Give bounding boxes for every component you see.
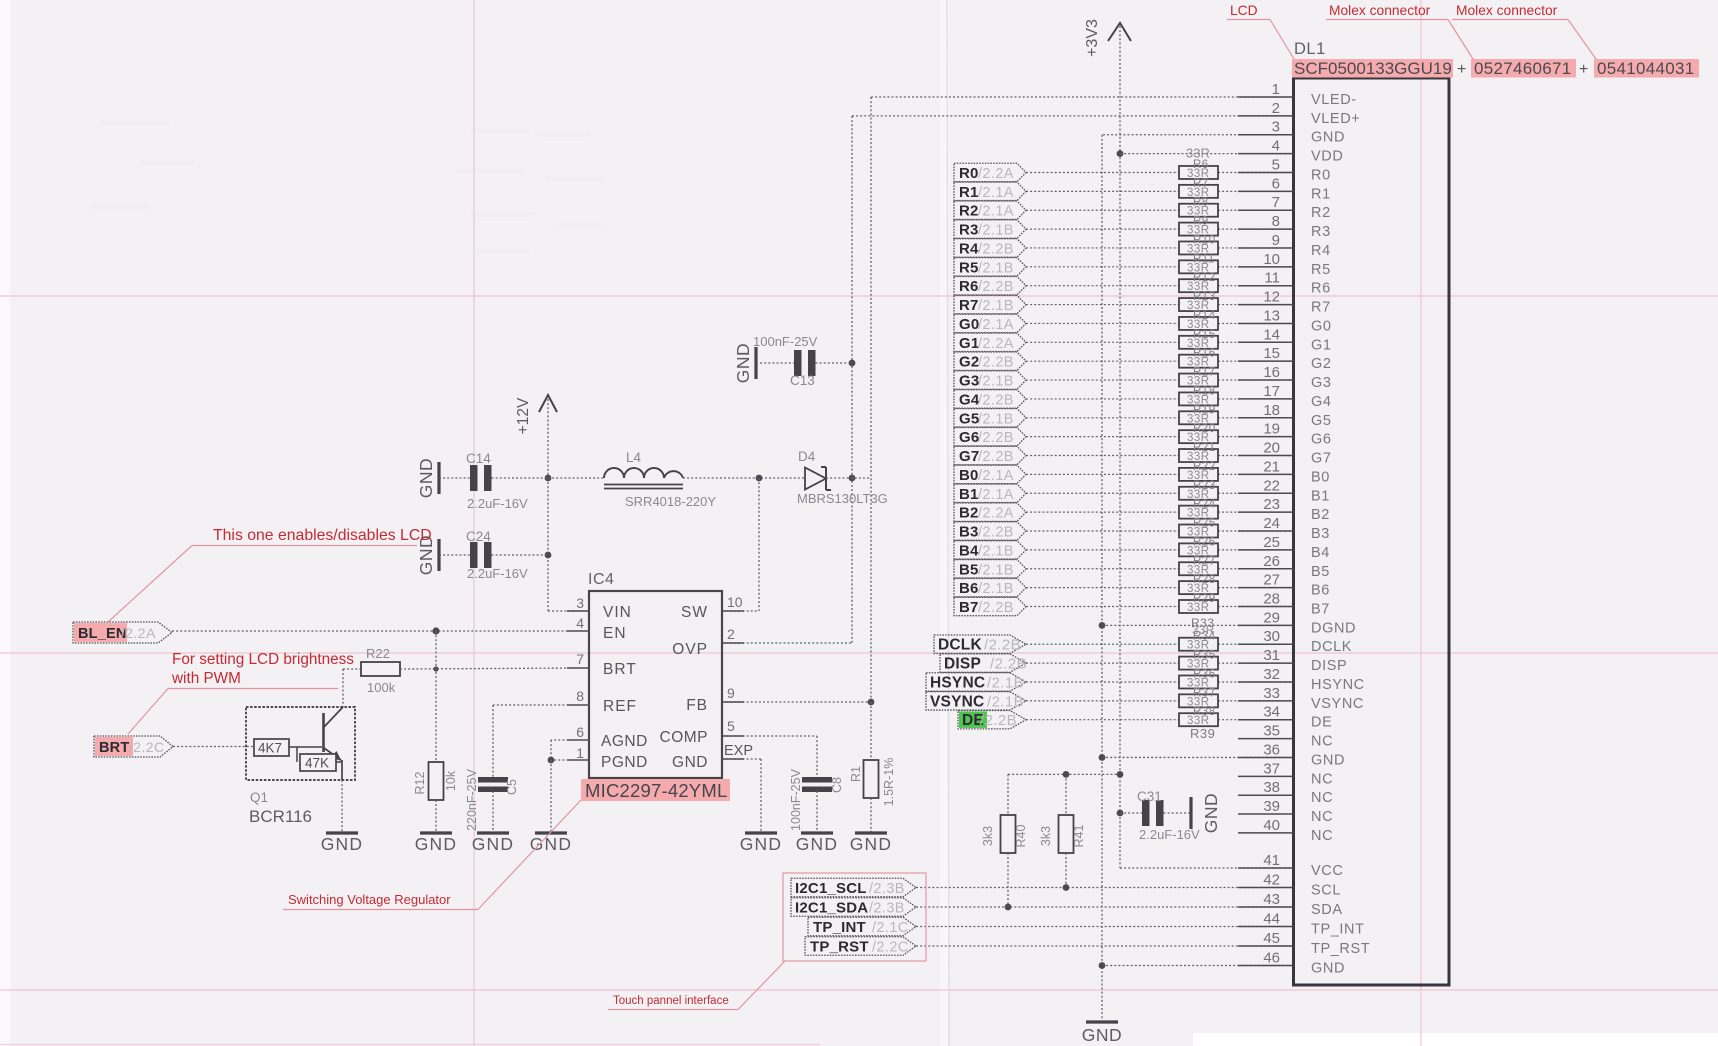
resistor R35 33R: [1179, 657, 1218, 670]
svg-text:5: 5: [1272, 156, 1280, 173]
resistor R7 33R: [1179, 185, 1218, 198]
pin 19 G6: [1238, 436, 1294, 438]
svg-text:DCLK: DCLK: [1311, 639, 1352, 655]
resistor R37 33R: [1179, 694, 1218, 707]
svg-text:FB: FB: [686, 697, 708, 714]
pin 6 R1: [1238, 190, 1294, 192]
wire FB pin: [722, 701, 871, 703]
resistor R16 33R: [1179, 355, 1218, 368]
svg-text:G3: G3: [959, 373, 979, 390]
resistor R6 33R: [1179, 166, 1218, 179]
wire G0 row: [1026, 322, 1179, 324]
svg-text:R5: R5: [959, 259, 979, 276]
svg-text:/2.1B: /2.1B: [978, 562, 1014, 578]
svg-text:100nF-25V: 100nF-25V: [753, 334, 818, 349]
capacitor C13 100nF-25V: [756, 362, 794, 364]
pin 16 G3: [1238, 379, 1294, 381]
svg-text:R15: R15: [1193, 329, 1216, 341]
svg-text:C24: C24: [466, 529, 491, 544]
svg-text:SRR4018-220Y: SRR4018-220Y: [625, 494, 716, 509]
svg-text:B3: B3: [1311, 526, 1330, 542]
svg-text:/2.3B: /2.3B: [869, 881, 905, 897]
wire G6 row: [1026, 436, 1179, 438]
svg-text:Q1: Q1: [250, 790, 268, 805]
svg-text:SCL: SCL: [1311, 883, 1341, 899]
svg-text:/2.2C: /2.2C: [129, 739, 164, 755]
node FB junction: [868, 699, 875, 706]
svg-text:R12: R12: [413, 771, 427, 794]
wire B4 row: [1026, 549, 1179, 551]
resistor R13 33R: [1179, 298, 1218, 311]
pin 42 SCL: [1238, 887, 1294, 889]
svg-text:Molex connector: Molex connector: [1329, 3, 1431, 18]
resistor R9 33R: [1179, 223, 1218, 236]
svg-text:/2.2B: /2.2B: [990, 656, 1027, 673]
node VDD junction: [1117, 150, 1124, 157]
ground for C24: [437, 539, 440, 571]
svg-text:/2.2B: /2.2B: [978, 241, 1014, 257]
svg-text:G5: G5: [959, 410, 979, 427]
svg-text:GND: GND: [415, 834, 458, 854]
node D4 output junction: [849, 475, 856, 482]
svg-text:220nF-25V: 220nF-25V: [465, 768, 479, 831]
svg-text:GND: GND: [472, 834, 515, 854]
wire B0 row: [1026, 473, 1179, 475]
wire pullup rail to +3V3: [1008, 773, 1120, 775]
svg-text:IC4: IC4: [588, 571, 614, 588]
svg-text:10k: 10k: [444, 770, 458, 791]
node C31 junction: [1117, 810, 1124, 817]
svg-text:9: 9: [1272, 232, 1280, 249]
resistor R12 10k pulldown: [435, 631, 437, 762]
svg-text:VSYNC: VSYNC: [1311, 696, 1364, 712]
power +3V3: [1108, 23, 1131, 41]
svg-text:R20: R20: [1193, 423, 1216, 435]
node PGND junction: [548, 757, 555, 764]
wire G5 row: [1026, 417, 1179, 419]
wire R4 row: [1026, 247, 1179, 249]
svg-text:LCD: LCD: [1230, 3, 1258, 18]
ground for C31: [1189, 797, 1192, 829]
pin 15 G2: [1238, 360, 1294, 362]
net flag VSYNC: [926, 692, 1026, 710]
svg-text:B6: B6: [959, 580, 979, 597]
svg-text:19: 19: [1263, 421, 1280, 438]
net flag B3: [954, 522, 1026, 540]
wire G1 row: [1026, 341, 1179, 343]
wire VSYNC row: [1026, 700, 1179, 702]
net flag R7: [954, 295, 1026, 313]
svg-text:B0: B0: [1311, 469, 1330, 485]
wire R3 row: [1026, 228, 1179, 230]
wire DGND pin 29: [1102, 624, 1294, 626]
connector DL1 box: [1294, 78, 1450, 985]
capacitor C14 2.2uF-16V: [439, 477, 471, 479]
pin 31 DISP: [1238, 662, 1294, 664]
svg-text:B2: B2: [1311, 507, 1330, 523]
pin 3 GND: [1238, 134, 1294, 136]
ground for C5: [477, 831, 509, 834]
svg-text:32: 32: [1263, 666, 1280, 683]
grid lines: [0, 295, 1718, 297]
svg-text:100nF-25V: 100nF-25V: [789, 768, 803, 831]
svg-text:Molex connector: Molex connector: [1456, 3, 1558, 18]
svg-text:Touch pannel interface: Touch pannel interface: [613, 995, 729, 1007]
svg-text:30: 30: [1263, 628, 1280, 645]
node SDA/R40 junction: [1005, 904, 1012, 911]
pin 1 VLED-: [1238, 96, 1294, 98]
svg-text:B0: B0: [959, 467, 979, 484]
ground for C14: [437, 462, 440, 494]
net flag B6: [954, 578, 1026, 596]
wire AGND/PGND to ground: [551, 739, 589, 741]
svg-text:GND: GND: [733, 343, 753, 383]
resistor R22 100k: [343, 668, 361, 670]
svg-text:G0: G0: [1311, 318, 1332, 334]
resistor R27 33R: [1179, 562, 1218, 575]
pin 11 R6: [1238, 285, 1294, 287]
svg-text:G6: G6: [959, 429, 979, 446]
ground for EXP: [745, 831, 777, 834]
svg-text:Switching Voltage Regulator: Switching Voltage Regulator: [288, 892, 451, 907]
svg-text:R18: R18: [1193, 385, 1216, 397]
net flag B0: [954, 465, 1026, 483]
svg-text:TP_INT: TP_INT: [1311, 922, 1365, 938]
wire B5 row: [1026, 568, 1179, 570]
svg-text:1: 1: [576, 745, 584, 761]
svg-text:BRT: BRT: [603, 661, 637, 678]
svg-text:/2.3B: /2.3B: [869, 901, 905, 917]
svg-text:GND: GND: [1201, 793, 1221, 833]
svg-text:R28: R28: [1193, 574, 1216, 586]
pin 33 VSYNC: [1238, 700, 1294, 702]
svg-text:GND: GND: [1311, 752, 1345, 768]
svg-text:COMP: COMP: [660, 729, 709, 746]
resistor R17 33R: [1179, 374, 1218, 387]
svg-text:2.2uF-16V: 2.2uF-16V: [1139, 827, 1200, 842]
pin 46 GND: [1238, 965, 1294, 967]
net flag I2C1_SDA: [791, 898, 916, 917]
svg-text:29: 29: [1263, 609, 1280, 626]
svg-text:/2.1B: /2.1B: [978, 223, 1014, 239]
svg-text:17: 17: [1263, 383, 1280, 400]
pin 12 R7: [1238, 304, 1294, 306]
net flag G1: [954, 333, 1026, 351]
net flag R3: [954, 220, 1026, 238]
wire +12V rail to VIN: [547, 478, 549, 611]
pin 14 G1: [1238, 341, 1294, 343]
pin 10 R5: [1238, 266, 1294, 268]
svg-text:/2.1B: /2.1B: [978, 411, 1014, 427]
net flag B4: [954, 541, 1026, 559]
svg-text:6: 6: [576, 724, 584, 740]
svg-text:2.2uF-16V: 2.2uF-16V: [467, 496, 528, 511]
wire D4 cathode to VLED+ node: [826, 477, 871, 479]
pin 13 G0: [1238, 322, 1294, 324]
svg-text:46: 46: [1263, 950, 1280, 967]
svg-text:DE: DE: [1311, 715, 1332, 731]
svg-text:10: 10: [1263, 251, 1280, 268]
power +12V: [539, 395, 557, 412]
svg-text:R4: R4: [959, 240, 979, 257]
svg-text:R3: R3: [959, 222, 979, 239]
capacitor C8 100nF-25V: [802, 777, 832, 783]
pin 45 TP_RST: [1238, 945, 1294, 947]
svg-text:/2.1B: /2.1B: [978, 260, 1014, 276]
svg-text:GND: GND: [416, 458, 436, 498]
svg-text:MIC2297-42YML: MIC2297-42YML: [585, 780, 727, 801]
svg-text:EXP: EXP: [724, 743, 753, 759]
resistor R15 33R: [1179, 336, 1218, 349]
svg-text:34: 34: [1263, 704, 1280, 721]
svg-text:16: 16: [1263, 364, 1280, 381]
net flag G2: [954, 352, 1026, 370]
node R41 top junction: [1063, 771, 1070, 778]
svg-text:G5: G5: [1311, 413, 1332, 429]
wire OVP to VLED+ rail: [722, 642, 852, 644]
pin 21 B0: [1238, 473, 1294, 475]
node DGND junction: [1099, 622, 1106, 629]
wire R6 row: [1026, 285, 1179, 287]
svg-text:40: 40: [1263, 817, 1280, 834]
svg-text:0541044031: 0541044031: [1597, 59, 1695, 78]
svg-text:/2.1A: /2.1A: [978, 468, 1014, 484]
svg-text:20: 20: [1263, 440, 1280, 457]
svg-text:SDA: SDA: [1311, 902, 1343, 918]
svg-text:B3: B3: [959, 524, 979, 541]
net flag G5: [954, 409, 1026, 427]
svg-text:/2.2B: /2.2B: [980, 712, 1017, 729]
net flag BRT: [95, 737, 133, 756]
svg-text:VSYNC: VSYNC: [930, 693, 984, 710]
pin 32 HSYNC: [1238, 681, 1294, 683]
svg-text:G1: G1: [959, 335, 979, 352]
svg-text:SCF0500133GGU19: SCF0500133GGU19: [1294, 59, 1452, 78]
net flag G4: [954, 390, 1026, 408]
net flag R2: [954, 201, 1026, 219]
svg-text:R7: R7: [959, 297, 979, 314]
svg-text:/2.2B: /2.2B: [978, 279, 1014, 295]
net flag BL_EN: [74, 623, 127, 642]
svg-text:GND: GND: [321, 834, 364, 854]
wire VDD pin 4: [1120, 153, 1294, 155]
svg-text:/2.2A: /2.2A: [978, 506, 1014, 522]
resistor R1 1.5R-1%: [870, 702, 872, 760]
svg-text:R8: R8: [1193, 197, 1209, 209]
ground for PGND: [535, 831, 567, 834]
IC op U: IC4 box: [589, 591, 722, 778]
wire DE row: [1026, 719, 1179, 721]
net flag G3: [954, 371, 1026, 389]
wire DCLK row: [1026, 643, 1179, 645]
svg-text:R22: R22: [1193, 461, 1216, 473]
pin 38 NC: [1238, 794, 1294, 796]
svg-text:45: 45: [1263, 930, 1280, 947]
svg-text:B1: B1: [1311, 488, 1330, 504]
svg-text:R19: R19: [1193, 404, 1216, 416]
svg-text:37: 37: [1263, 760, 1280, 777]
svg-text:+12V: +12V: [515, 397, 532, 434]
svg-text:13: 13: [1263, 307, 1280, 324]
svg-text:G4: G4: [959, 391, 980, 408]
svg-text:REF: REF: [603, 698, 637, 715]
wire VLED- (pin1): [871, 96, 1294, 98]
wire SW riser: [758, 478, 760, 611]
svg-text:DL1: DL1: [1294, 40, 1326, 58]
svg-text:4: 4: [1272, 138, 1280, 155]
svg-text:35: 35: [1263, 723, 1280, 740]
pin 27 B6: [1238, 587, 1294, 589]
svg-text:/2.1B: /2.1B: [987, 674, 1024, 691]
svg-text:22: 22: [1263, 477, 1280, 494]
resistor R38 33R: [1179, 713, 1218, 726]
svg-text:GND: GND: [1311, 130, 1345, 146]
svg-text:G1: G1: [1311, 337, 1332, 353]
svg-text:/2.1B: /2.1B: [978, 543, 1014, 559]
svg-text:R16: R16: [1193, 348, 1216, 360]
svg-text:NC: NC: [1311, 771, 1333, 787]
svg-text:B7: B7: [1311, 601, 1330, 617]
svg-text:3: 3: [576, 595, 584, 611]
net flag R4: [954, 239, 1026, 257]
wire TP_INT: [916, 926, 1294, 928]
svg-text:R21: R21: [1193, 442, 1216, 454]
svg-text:DISP: DISP: [1311, 658, 1347, 674]
svg-text:G6: G6: [1311, 432, 1332, 448]
svg-text:R1: R1: [959, 184, 979, 201]
wire VLED- vertical rail to FB: [870, 97, 872, 702]
svg-text:TP_RST: TP_RST: [1311, 941, 1370, 957]
svg-text:15: 15: [1263, 345, 1280, 362]
value 0541044031 (highlight Molex part): [1594, 59, 1699, 78]
svg-text:R38: R38: [1193, 706, 1216, 718]
svg-text:VLED+: VLED+: [1311, 111, 1360, 127]
capacitor C24 2.2uF-16V: [439, 554, 471, 556]
svg-text:This one enables/disables LCD: This one enables/disables LCD: [213, 527, 432, 544]
svg-text:For setting LCD brightness: For setting LCD brightness: [172, 651, 354, 668]
wire L4 to D4: [683, 477, 805, 479]
svg-text:B1: B1: [959, 486, 979, 503]
svg-text:G2: G2: [1311, 356, 1332, 372]
pin stubs IC4: [567, 610, 589, 612]
svg-text:R41: R41: [1072, 824, 1086, 847]
pin 41 VCC: [1238, 867, 1294, 869]
svg-text:100k: 100k: [367, 680, 396, 695]
net flag HSYNC: [926, 673, 1026, 691]
wire GND pin 36: [1102, 756, 1294, 758]
wire R5 row: [1026, 266, 1179, 268]
pin 36 GND: [1238, 756, 1294, 758]
pin 23 B2: [1238, 511, 1294, 513]
svg-text:R10: R10: [1193, 234, 1216, 246]
svg-text:8: 8: [1272, 213, 1280, 230]
node EN / R12 junction: [432, 627, 439, 634]
resistor R34 33R: [1179, 638, 1218, 651]
pin 7 R2: [1238, 209, 1294, 211]
pin 28 B7: [1238, 605, 1294, 607]
svg-text:B5: B5: [1311, 564, 1330, 580]
svg-text:42: 42: [1263, 872, 1280, 889]
svg-text:7: 7: [576, 651, 584, 667]
ground for R12: [420, 831, 452, 834]
svg-text:EN: EN: [603, 625, 627, 642]
pin 24 B3: [1238, 530, 1294, 532]
svg-text:R6: R6: [1193, 159, 1209, 171]
net flag G0: [954, 314, 1026, 332]
svg-text:DGND: DGND: [1311, 620, 1356, 636]
svg-text:G3: G3: [1311, 375, 1332, 391]
svg-text:2.2uF-16V: 2.2uF-16V: [467, 566, 528, 581]
net flag R0: [954, 163, 1026, 181]
svg-text:B4: B4: [1311, 545, 1330, 561]
svg-text:R5: R5: [1311, 262, 1331, 278]
pin 25 B4: [1238, 549, 1294, 551]
svg-text:4: 4: [576, 615, 584, 631]
svg-text:TP_RST: TP_RST: [810, 939, 869, 956]
svg-text:25: 25: [1263, 534, 1280, 551]
wire COMP to C8: [722, 735, 817, 737]
ground main rail: [1086, 1020, 1118, 1023]
svg-text:GND: GND: [1082, 1025, 1122, 1045]
svg-text:G7: G7: [1311, 451, 1332, 467]
svg-text:/2.2A: /2.2A: [978, 336, 1014, 352]
resistor R22 33R: [1179, 468, 1218, 481]
svg-text:33R: 33R: [1192, 625, 1215, 637]
svg-text:23: 23: [1263, 496, 1280, 513]
net flag I2C1_SCL: [791, 878, 916, 897]
net flag R1: [954, 182, 1026, 200]
svg-text:BRT: BRT: [99, 740, 129, 756]
svg-text:/2.1A: /2.1A: [978, 204, 1014, 220]
wire R1 row: [1026, 190, 1179, 192]
ground for C13: [754, 347, 757, 379]
value SCF0500133GGU19 (highlight LCD part): [1292, 59, 1453, 78]
net flag B5: [954, 560, 1026, 578]
svg-text:C5: C5: [505, 779, 519, 795]
wire DISP row: [1026, 662, 1179, 664]
svg-text:I2C1_SCL: I2C1_SCL: [795, 880, 867, 897]
node GND36 junction: [1099, 754, 1106, 761]
pin 9 R4: [1238, 247, 1294, 249]
wire TP_RST: [916, 945, 1294, 947]
svg-text:R3: R3: [1311, 224, 1331, 240]
svg-text:HSYNC: HSYNC: [1311, 677, 1365, 693]
wire G3 row: [1026, 379, 1179, 381]
pin 20 G7: [1238, 455, 1294, 457]
svg-text:/2.1A: /2.1A: [978, 317, 1014, 333]
net flag DCLK: [934, 635, 1026, 653]
net flag R5: [954, 258, 1026, 276]
net flag B1: [954, 484, 1026, 502]
pin 30 DCLK: [1238, 643, 1294, 645]
resistor R28 33R: [1179, 581, 1218, 594]
svg-text:HSYNC: HSYNC: [930, 674, 985, 691]
resistor R24 33R: [1179, 506, 1218, 519]
wire G7 row: [1026, 455, 1179, 457]
pin 40 NC: [1238, 832, 1294, 834]
resistor R8 33R: [1179, 204, 1218, 217]
svg-text:VCC: VCC: [1311, 863, 1343, 879]
svg-text:B5: B5: [959, 561, 979, 578]
pin 44 TP_INT: [1238, 926, 1294, 928]
wire SCL: [916, 887, 1294, 889]
wire G2 row: [1026, 360, 1179, 362]
annotation box: touch panel nets: [783, 873, 926, 961]
wire GND rail (pin3/DGND/GND): [1102, 134, 1294, 136]
net flag B2: [954, 503, 1026, 521]
svg-text:5: 5: [727, 718, 735, 734]
svg-text:G4: G4: [1311, 394, 1332, 410]
